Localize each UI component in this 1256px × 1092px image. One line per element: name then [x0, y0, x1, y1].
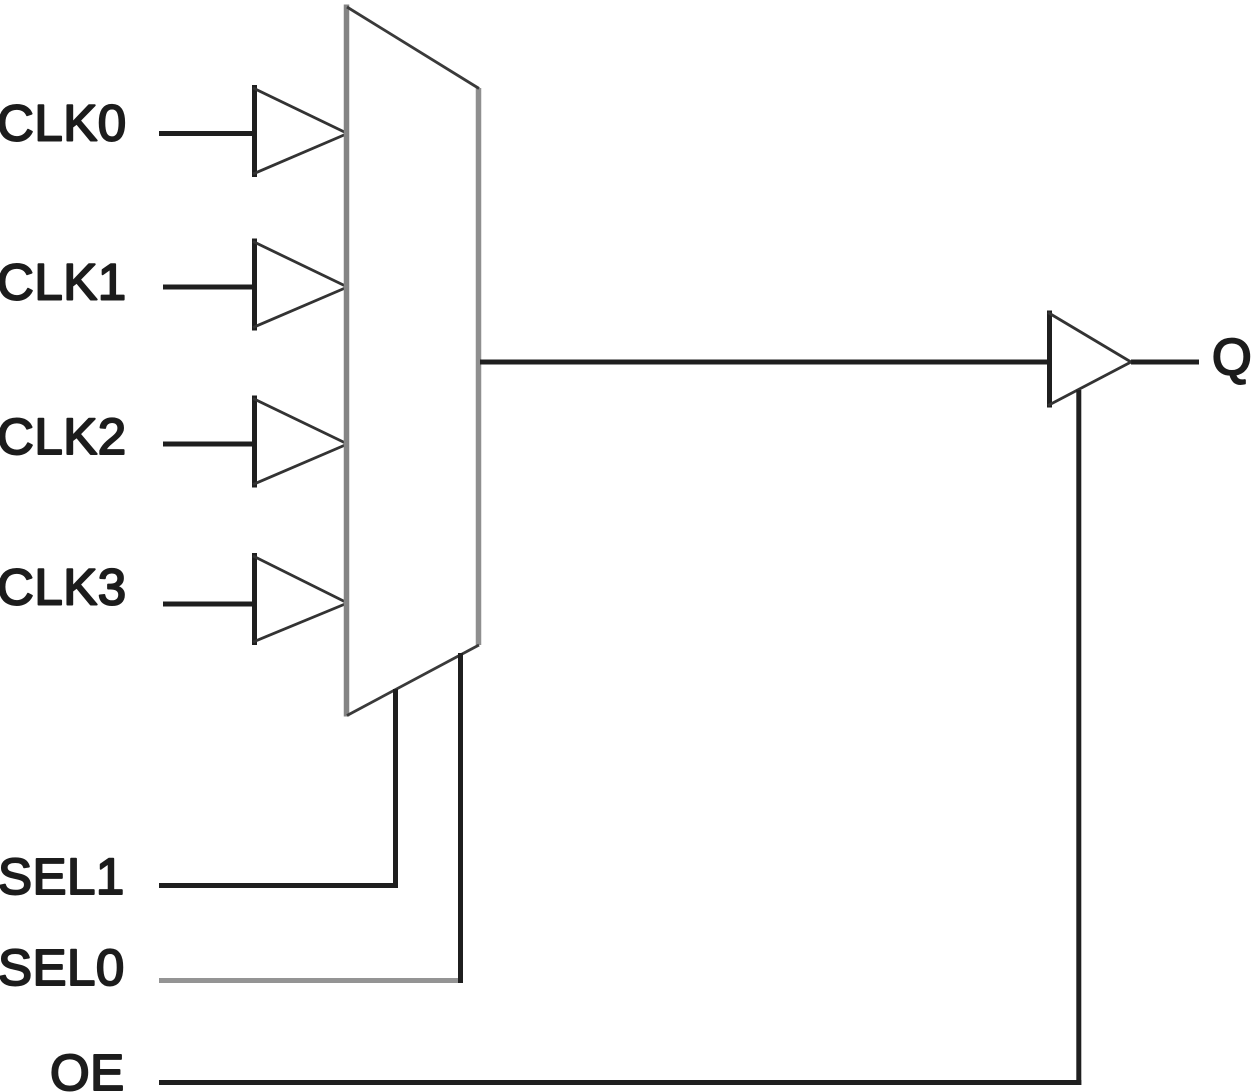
svg-text:CLK3: CLK3 — [0, 559, 127, 616]
svg-text:SEL0: SEL0 — [0, 939, 125, 996]
svg-text:CLK0: CLK0 — [0, 95, 127, 152]
svg-text:SEL1: SEL1 — [0, 848, 125, 905]
svg-text:CLK2: CLK2 — [0, 408, 127, 465]
svg-text:Q: Q — [1212, 329, 1252, 386]
svg-text:CLK1: CLK1 — [0, 254, 127, 311]
svg-text:OE: OE — [50, 1044, 125, 1092]
